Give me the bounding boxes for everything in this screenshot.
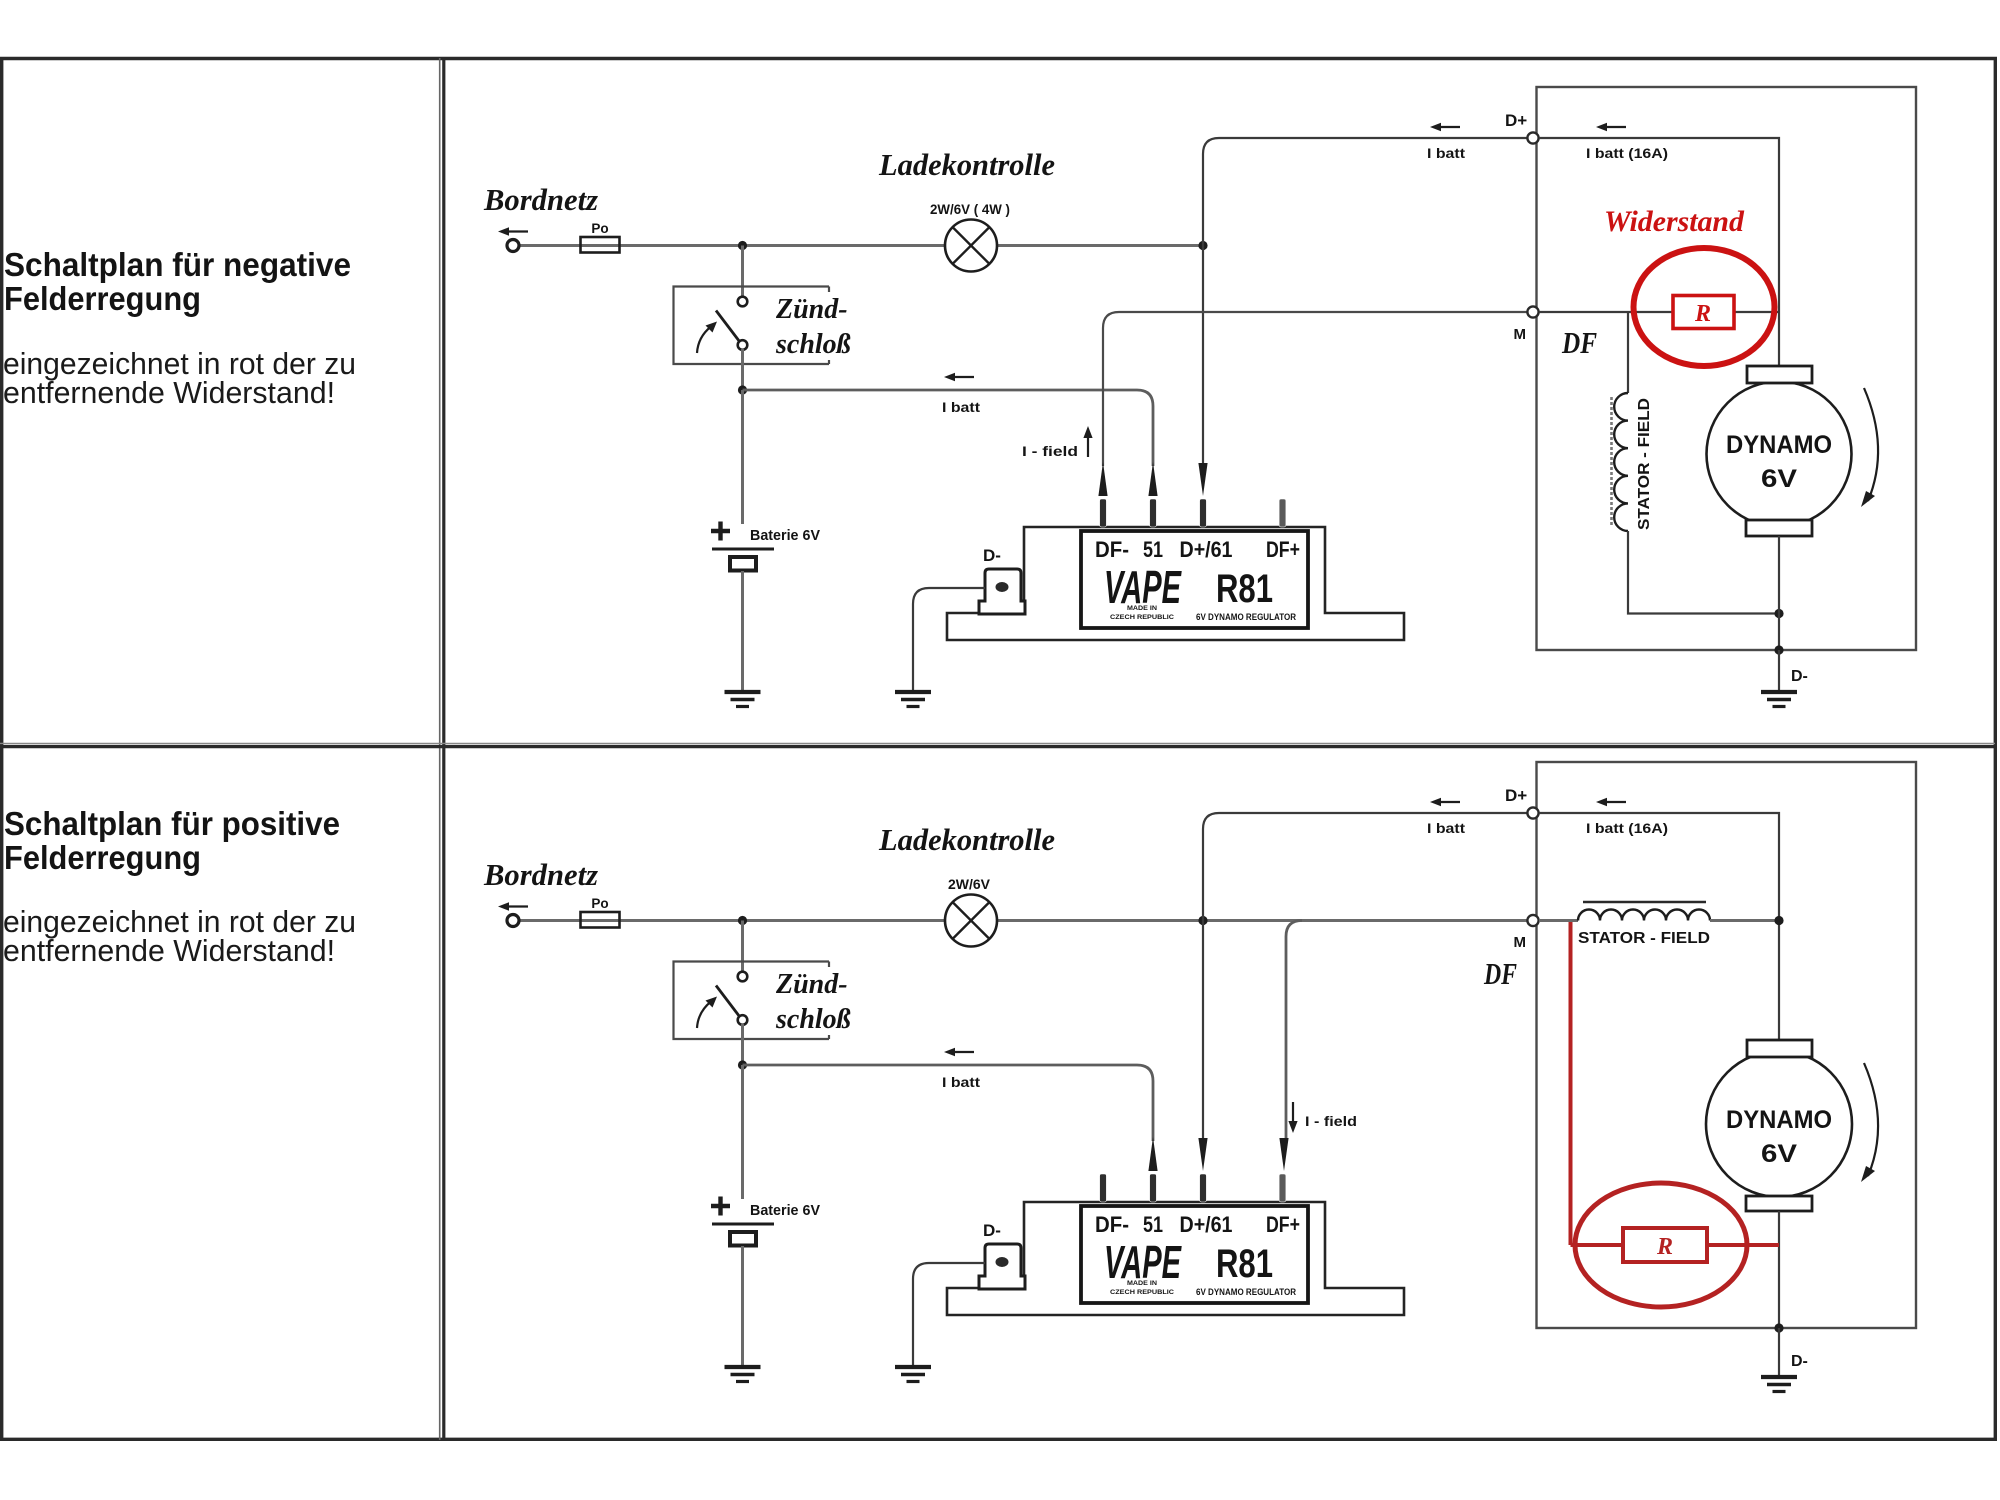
pin 51 (top) xyxy=(1150,499,1157,527)
wire junction down to battery (bottom) xyxy=(741,1065,744,1199)
resistor R box (bottom) xyxy=(1623,1228,1707,1262)
arrow head into pin DF- (top) xyxy=(1098,462,1107,496)
wire lamp junction riser to D+ and down to regulator D+/61 (top) xyxy=(1203,138,1219,465)
I batt wire from switch to regulator terminal 51 (top) xyxy=(743,390,1154,466)
wire box bottom to D- ground (top) xyxy=(1778,650,1780,692)
junction dot lamp wire to D+ riser (bottom) xyxy=(1198,916,1207,925)
svg-text:D+: D+ xyxy=(1505,786,1527,805)
battery ground symbol (bottom) xyxy=(725,1365,761,1369)
svg-text:D+/61: D+/61 xyxy=(1180,1212,1233,1237)
wire coil to riser junction (bottom) xyxy=(1710,919,1779,922)
svg-text:entfernende Widerstand!: entfernende Widerstand! xyxy=(3,375,335,410)
svg-text:D-: D- xyxy=(1791,668,1808,685)
M terminal circle (bottom) xyxy=(1527,915,1538,926)
charge lamp circle with X (bottom) xyxy=(945,895,997,947)
svg-text:M: M xyxy=(1514,326,1527,343)
svg-text:CZECH REPUBLIC: CZECH REPUBLIC xyxy=(1110,1289,1174,1296)
regulator ground symbol (bottom) xyxy=(895,1365,931,1369)
svg-text:R: R xyxy=(1656,1234,1673,1260)
switch blade (top) xyxy=(716,311,740,342)
svg-text:I batt: I batt xyxy=(942,1075,981,1090)
switch blade (bottom) xyxy=(716,986,740,1017)
svg-text:Baterie 6V: Baterie 6V xyxy=(750,528,820,544)
switch upper contact circle (top) xyxy=(738,297,748,307)
junction dot battery/I-batt branch (bottom) xyxy=(738,1060,747,1069)
svg-text:DYNAMO: DYNAMO xyxy=(1726,1106,1832,1134)
D- spade terminal (top) xyxy=(979,569,1025,614)
red ellipse marking resistor (bottom) xyxy=(1575,1183,1747,1307)
svg-text:Schaltplan für negative: Schaltplan für negative xyxy=(4,246,351,283)
main bus wire from Bordnetz terminal through fuse and lamp to junction (top) xyxy=(517,244,1203,247)
svg-text:I batt: I batt xyxy=(1427,146,1466,161)
table outer border bottom xyxy=(0,1438,1997,1441)
dynamo circle (top) xyxy=(1707,382,1852,527)
svg-text:I batt (16A): I batt (16A) xyxy=(1586,821,1668,836)
svg-text:Bordnetz: Bordnetz xyxy=(483,857,598,892)
battery negative plate box (top) xyxy=(730,557,756,571)
svg-text:2W/6V ( 4W ): 2W/6V ( 4W ) xyxy=(930,202,1010,217)
svg-text:D-: D- xyxy=(1791,1353,1808,1370)
svg-text:Schaltplan für positive: Schaltplan für positive xyxy=(4,805,340,842)
svg-text:Zünd-: Zünd- xyxy=(775,969,848,1000)
svg-text:I batt (16A): I batt (16A) xyxy=(1586,146,1668,161)
stator field coil vertical (top) xyxy=(1627,312,1629,393)
regulator label plate (top) xyxy=(1081,531,1308,628)
table outer border left xyxy=(0,57,3,1441)
coil core line (bottom) xyxy=(1583,901,1706,904)
svg-text:entfernende Widerstand!: entfernende Widerstand! xyxy=(3,933,335,968)
svg-text:DF: DF xyxy=(1483,956,1517,991)
svg-text:I batt: I batt xyxy=(942,400,981,415)
fuse Po (bottom) xyxy=(581,912,620,928)
svg-text:Felderregung: Felderregung xyxy=(4,839,201,876)
svg-text:Widerstand: Widerstand xyxy=(1604,205,1745,238)
table column divider xyxy=(439,58,441,1440)
svg-text:R: R xyxy=(1694,301,1711,327)
I batt (16A) arrow+label inside box (top) xyxy=(1596,123,1607,131)
battery ground symbol (top) xyxy=(725,690,761,694)
charge lamp circle with X (top) xyxy=(945,220,997,272)
I batt arrow+label on switch wire (bottom) xyxy=(944,1048,955,1056)
wire D- spade to ground (bottom) xyxy=(913,1263,985,1367)
svg-text:D+/61: D+/61 xyxy=(1180,537,1233,562)
stator field coil horizontal (bottom) xyxy=(1578,910,1710,921)
wire junction to switch upper contact (top) xyxy=(741,246,744,298)
dynamo circle (bottom) xyxy=(1706,1051,1852,1197)
D- spade terminal (bottom) xyxy=(979,1244,1025,1289)
rotation arrow (top) xyxy=(1864,388,1878,501)
svg-text:51: 51 xyxy=(1143,537,1163,562)
svg-text:DYNAMO: DYNAMO xyxy=(1726,431,1832,459)
svg-text:D-: D- xyxy=(983,546,1001,565)
Bordnetz terminal circle (top) xyxy=(507,240,519,252)
svg-text:6V: 6V xyxy=(1761,1140,1797,1168)
dynamo brush top (top) xyxy=(1747,366,1812,383)
svg-text:51: 51 xyxy=(1143,1212,1163,1237)
main bus wire from Bordnetz terminal through fuse and lamp to M terminal (bottom) xyxy=(517,919,1527,922)
battery negative plate box (bottom) xyxy=(730,1232,756,1246)
arrow at Bordnetz terminal (top) xyxy=(498,227,509,235)
inner wire M terminal to coil (bottom) xyxy=(1539,919,1578,922)
svg-text:STATOR - FIELD: STATOR - FIELD xyxy=(1578,930,1710,947)
inner wire D+ to dynamo riser (top) xyxy=(1539,138,1779,366)
wire battery to ground (bottom) xyxy=(741,1246,744,1367)
ignition switch box (top) xyxy=(674,287,830,365)
wire switch lower contact to battery junction (top) xyxy=(741,349,744,390)
table outer border right xyxy=(1994,57,1997,1441)
junction dot at box bottom (top) xyxy=(1774,645,1783,654)
D+ terminal circle (bottom) xyxy=(1527,807,1538,818)
I batt (16A) arrow+label inside box (bottom) xyxy=(1596,798,1607,806)
junction dot battery/I-batt branch (top) xyxy=(738,385,747,394)
svg-text:6V DYNAMO REGULATOR: 6V DYNAMO REGULATOR xyxy=(1196,612,1296,623)
arrow head into pin 51 (bottom) xyxy=(1148,1137,1157,1171)
svg-text:DF+: DF+ xyxy=(1266,537,1300,562)
regulator label plate (bottom) xyxy=(1081,1206,1308,1303)
battery plus sign (top) xyxy=(711,529,730,533)
inner wire D+ to dynamo riser (bottom) xyxy=(1539,813,1779,1040)
junction dot at box bottom (bottom) xyxy=(1774,1323,1783,1332)
svg-text:D-: D- xyxy=(983,1221,1001,1240)
svg-text:MADE IN: MADE IN xyxy=(1127,605,1157,612)
dynamo frame box (bottom) xyxy=(1537,762,1917,1328)
svg-text:schloß: schloß xyxy=(775,1004,851,1035)
svg-text:I batt: I batt xyxy=(1427,821,1466,836)
wire battery to ground (top) xyxy=(741,571,744,692)
svg-text:DF-: DF- xyxy=(1095,537,1129,562)
wire box bottom to D- ground (bottom) xyxy=(1778,1328,1780,1377)
battery positive plate (bottom) xyxy=(712,1223,774,1226)
DF+ field wire branch from M bus down to pin DF+ (bottom) xyxy=(1286,921,1302,1142)
svg-text:CZECH REPUBLIC: CZECH REPUBLIC xyxy=(1110,614,1174,621)
svg-text:6V DYNAMO REGULATOR: 6V DYNAMO REGULATOR xyxy=(1196,1287,1296,1298)
coil core dashed line (top) xyxy=(1610,397,1613,525)
junction dot lamp wire to D+ riser (top) xyxy=(1198,241,1207,250)
resistor R box (top) xyxy=(1673,296,1734,329)
svg-text:Bordnetz: Bordnetz xyxy=(483,182,598,217)
dynamo frame box (top) xyxy=(1537,87,1917,650)
arrow head into pin D+/61 (bottom) xyxy=(1198,1138,1207,1171)
junction dot riser at M level (bottom) xyxy=(1774,916,1783,925)
svg-text:Baterie 6V: Baterie 6V xyxy=(750,1203,820,1219)
wire switch lower contact to battery junction (bottom) xyxy=(741,1024,744,1065)
table outer border top xyxy=(0,57,1997,60)
svg-text:Ladekontrolle: Ladekontrolle xyxy=(878,822,1055,857)
wire D- spade to ground (top) xyxy=(913,588,985,692)
ignition switch box (bottom) xyxy=(674,962,830,1040)
label Zuendschloss (bottom) xyxy=(768,967,864,1035)
red wire from M node down to resistor (bottom) xyxy=(1569,921,1573,1246)
svg-text:schloß: schloß xyxy=(775,329,851,360)
regulator R81 case (top) xyxy=(947,527,1404,640)
regulator R81 case (bottom) xyxy=(947,1202,1404,1315)
junction dot at ignition switch branch (top) xyxy=(738,241,747,250)
pin DF+ (top) xyxy=(1279,499,1286,527)
arrow head into pin D+/61 (top) xyxy=(1198,463,1207,496)
svg-text:Ladekontrolle: Ladekontrolle xyxy=(878,147,1055,182)
svg-text:STATOR - FIELD: STATOR - FIELD xyxy=(1636,398,1653,530)
pin D+/61 (bottom) xyxy=(1200,1174,1207,1202)
pin DF- (bottom) xyxy=(1100,1174,1107,1202)
label Zuendschloss (top) xyxy=(768,292,864,360)
svg-text:DF: DF xyxy=(1561,325,1597,360)
dynamo ground symbol (bottom) xyxy=(1761,1375,1797,1379)
red ellipse marking resistor (top) xyxy=(1634,248,1775,366)
wire junction to switch upper contact (bottom) xyxy=(741,921,744,973)
arrow head into pin DF+ (bottom) xyxy=(1279,1138,1288,1171)
svg-text:I - field: I - field xyxy=(1305,1114,1357,1129)
table row divider xyxy=(0,742,1995,744)
switch lower contact circle (top) xyxy=(738,340,748,350)
svg-text:MADE IN: MADE IN xyxy=(1127,1280,1157,1287)
dynamo brush top (bottom) xyxy=(1747,1040,1812,1057)
wire junction down to battery (top) xyxy=(741,390,744,524)
svg-text:Felderregung: Felderregung xyxy=(4,280,201,317)
rotation arrow (bottom) xyxy=(1864,1063,1878,1176)
inner wire M to resistor node (top) xyxy=(1539,311,1673,313)
svg-text:2W/6V: 2W/6V xyxy=(948,877,990,892)
D+ terminal circle (top) xyxy=(1527,132,1538,143)
svg-text:Po: Po xyxy=(591,221,608,236)
svg-text:M: M xyxy=(1514,934,1527,951)
arrow at Bordnetz terminal (bottom) xyxy=(498,902,509,910)
svg-text:Zünd-: Zünd- xyxy=(775,294,848,325)
svg-text:DF+: DF+ xyxy=(1266,1212,1300,1237)
switch actuator arrow (top) xyxy=(697,327,711,354)
arrow head into pin 51 (top) xyxy=(1148,462,1157,496)
dynamo brush bottom (bottom) xyxy=(1746,1196,1812,1211)
regulator ground symbol (top) xyxy=(895,690,931,694)
junction dot coil return (top) xyxy=(1774,609,1783,618)
svg-text:I - field: I - field xyxy=(1022,444,1078,459)
pin 51 (bottom) xyxy=(1150,1174,1157,1202)
I batt arrow+label on switch wire (top) xyxy=(944,373,955,381)
M wire from regulator DF- up and right to M terminal (top) xyxy=(1103,312,1527,466)
Bordnetz terminal circle (bottom) xyxy=(507,915,519,927)
junction dot at ignition switch branch (bottom) xyxy=(738,916,747,925)
svg-text:DF-: DF- xyxy=(1095,1212,1129,1237)
dynamo ground symbol (top) xyxy=(1761,690,1797,694)
I batt arrow+label on D+ wire outside box (bottom) xyxy=(1430,798,1441,806)
switch actuator arrow (bottom) xyxy=(697,1002,711,1029)
wire dynamo bottom through red node to box bottom (bottom) xyxy=(1778,1211,1780,1328)
pin DF+ (bottom) xyxy=(1279,1174,1286,1202)
wire coil bottom to dynamo riser bottom (top) xyxy=(1628,531,1779,614)
I batt wire from switch to regulator terminal 51 (bottom) xyxy=(743,1065,1154,1141)
switch upper contact circle (bottom) xyxy=(738,972,748,982)
I - field label and down arrow (bottom) xyxy=(1292,1102,1294,1125)
wire dynamo bottom to box bottom (top) xyxy=(1778,536,1780,650)
svg-text:Po: Po xyxy=(591,896,608,911)
svg-text:R81: R81 xyxy=(1216,1242,1273,1286)
battery plus sign (bottom) xyxy=(711,1204,730,1208)
red wire through resistor R to dynamo riser (bottom) xyxy=(1571,1243,1780,1247)
pin DF- (top) xyxy=(1100,499,1107,527)
M terminal circle (top) xyxy=(1527,306,1538,317)
I batt arrow+label on D+ wire outside box (top) xyxy=(1430,123,1441,131)
svg-text:6V: 6V xyxy=(1761,465,1797,493)
dynamo brush bottom (top) xyxy=(1746,520,1812,536)
fuse Po (top) xyxy=(581,237,620,253)
wire resistor right side to dynamo riser (top) xyxy=(1734,311,1779,313)
switch lower contact circle (bottom) xyxy=(738,1015,748,1025)
svg-text:D+: D+ xyxy=(1505,111,1527,130)
pin D+/61 (top) xyxy=(1200,499,1207,527)
battery positive plate (top) xyxy=(712,548,774,551)
svg-text:R81: R81 xyxy=(1216,567,1273,611)
wire D+ down through junction to regulator D+/61 (bottom) xyxy=(1203,813,1219,1140)
